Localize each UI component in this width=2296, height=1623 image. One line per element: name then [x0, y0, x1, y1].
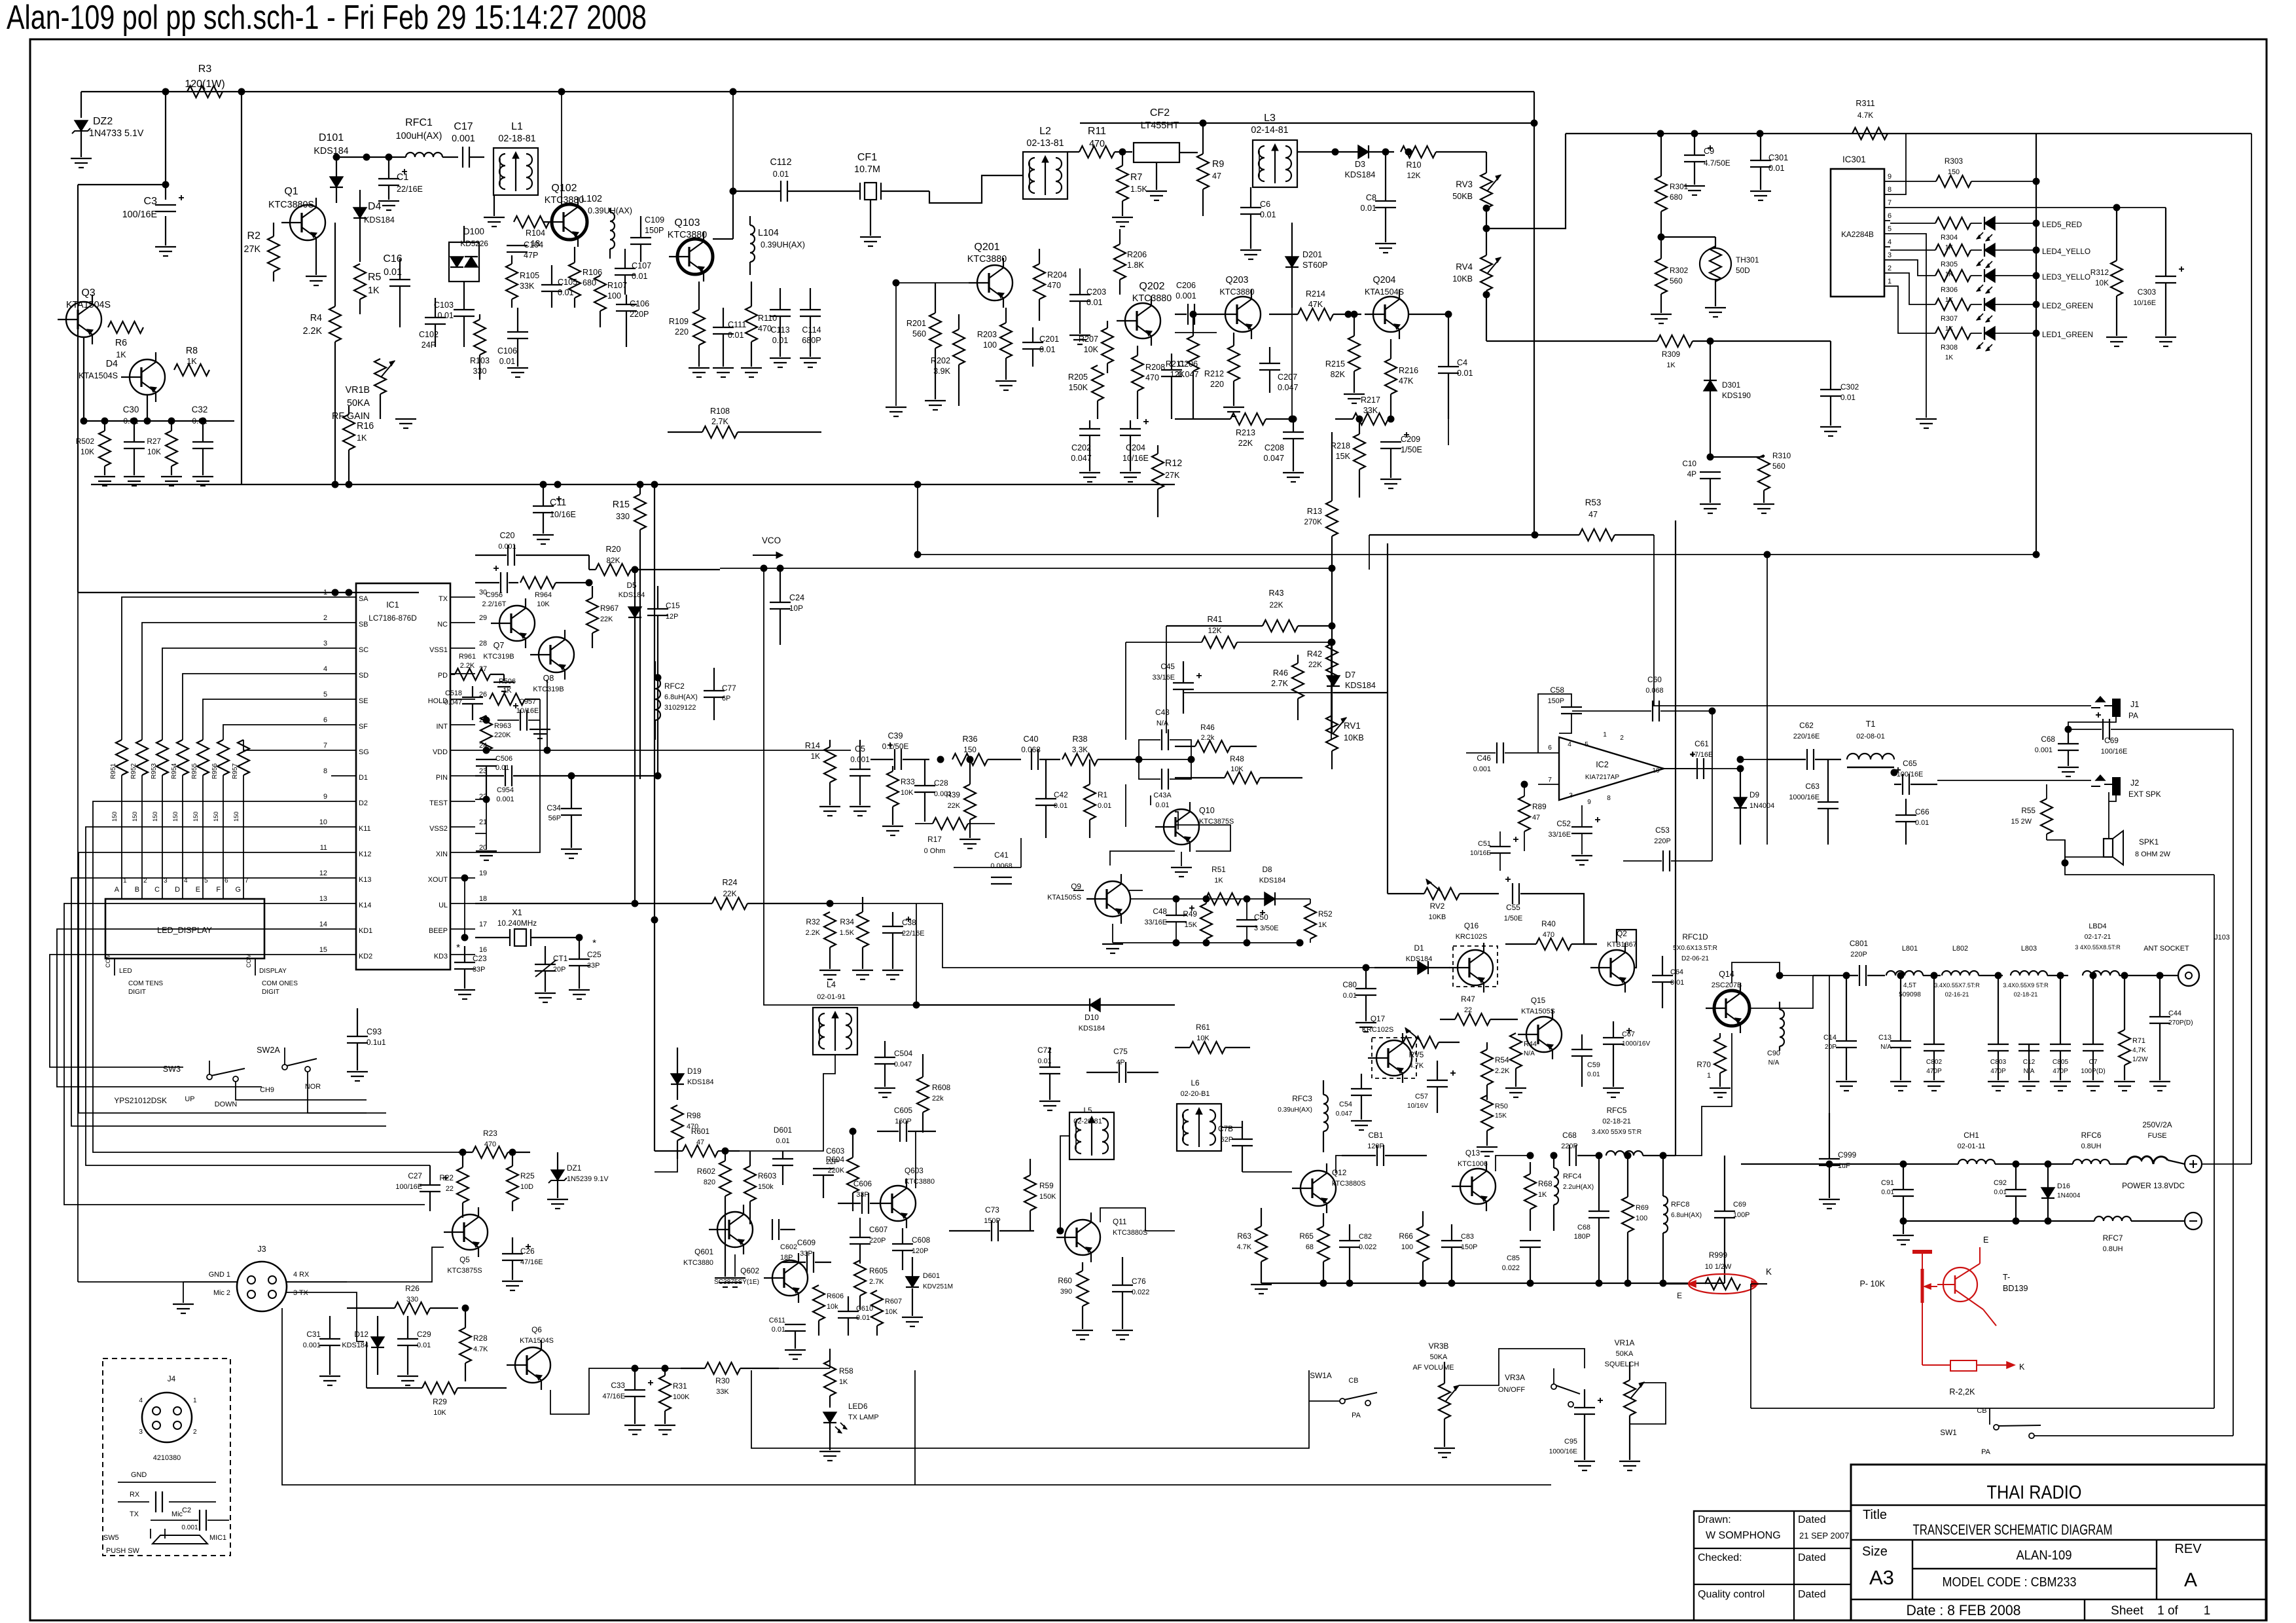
svg-text:02-01-11: 02-01-11 [1958, 1142, 1986, 1150]
LED LED1 [1984, 327, 1995, 340]
wire l3 top feed [1080, 122, 1534, 124]
svg-text:R33: R33 [901, 777, 915, 786]
svg-text:0.01: 0.01 [1457, 369, 1473, 378]
svg-text:R206: R206 [1127, 250, 1147, 259]
svg-text:27K: 27K [1165, 471, 1180, 480]
svg-text:C106: C106 [497, 346, 517, 356]
svg-text:2.2K: 2.2K [806, 929, 821, 937]
svg-text:220P: 220P [1654, 837, 1670, 845]
svg-text:R211: R211 [1166, 359, 1185, 369]
svg-text:10K: 10K [885, 1308, 898, 1316]
svg-text:INT: INT [436, 723, 448, 731]
resistor R50 [1481, 1095, 1493, 1131]
svg-text:KTC319B: KTC319B [533, 685, 564, 693]
svg-text:R303: R303 [1945, 156, 1964, 166]
svg-text:R218: R218 [1331, 441, 1350, 450]
resistor R28 [459, 1328, 471, 1363]
capacitor C62 [1806, 749, 1808, 770]
svg-text:R27: R27 [147, 437, 161, 446]
svg-text:C609: C609 [797, 1238, 816, 1247]
inductor LB04 [2083, 971, 2119, 976]
svg-text:1K: 1K [811, 752, 821, 761]
svg-text:C57: C57 [1415, 1093, 1428, 1101]
svg-text:C53: C53 [1655, 826, 1670, 835]
jack J1 [2113, 699, 2120, 716]
svg-text:100: 100 [1401, 1243, 1413, 1251]
capacitor C107 [615, 268, 636, 269]
svg-text:220K: 220K [494, 731, 511, 739]
ground DZ2 [71, 158, 92, 159]
resistor R964 [520, 577, 556, 589]
svg-text:R214: R214 [1306, 289, 1325, 299]
svg-text:R963: R963 [494, 722, 511, 730]
svg-text:C207: C207 [1278, 373, 1297, 382]
svg-text:6P: 6P [722, 695, 730, 702]
resistor R26 [395, 1302, 430, 1314]
svg-text:100uH(AX): 100uH(AX) [396, 131, 442, 141]
svg-text:22K: 22K [600, 615, 613, 623]
capacitor C54 [1351, 1088, 1372, 1089]
svg-text:1N4004: 1N4004 [2057, 1192, 2081, 1199]
svg-text:DOWN: DOWN [215, 1101, 237, 1108]
resistor R607 [871, 1290, 883, 1326]
wire q601 emitter [734, 1254, 736, 1277]
capacitor C803 [1988, 1044, 2009, 1045]
svg-text:GND 1: GND 1 [209, 1271, 230, 1279]
svg-text:C68: C68 [1577, 1224, 1590, 1231]
resistor R608 [917, 1077, 929, 1112]
svg-text:22/16E: 22/16E [397, 185, 423, 194]
wire q12 to c81 [1336, 1156, 1342, 1173]
svg-text:33P: 33P [473, 966, 485, 974]
svg-text:D201: D201 [1302, 250, 1322, 259]
diode D101 [330, 177, 343, 187]
svg-text:Q8: Q8 [543, 674, 554, 683]
pot VR1A squelch [1624, 1380, 1636, 1415]
wire vr3b wiper [1459, 1349, 1585, 1385]
resistor R4 [329, 306, 341, 342]
svg-text:3 3/50E: 3 3/50E [1254, 924, 1279, 932]
svg-text:7: 7 [1888, 199, 1892, 207]
svg-text:Q3: Q3 [81, 287, 95, 299]
wire Q3 net [84, 337, 234, 421]
svg-text:680P: 680P [802, 336, 821, 345]
svg-text:CH1: CH1 [1964, 1131, 1979, 1140]
wire vco col [1333, 692, 1388, 693]
transformer L2 [1023, 152, 1067, 199]
svg-text:K: K [1766, 1267, 1772, 1277]
wire D4 net [147, 395, 148, 421]
resistor R103 [474, 319, 486, 355]
svg-text:KTC3880S: KTC3880S [268, 200, 314, 210]
svg-text:R50: R50 [1495, 1103, 1508, 1110]
resistor R999 red circled [1705, 1278, 1740, 1290]
svg-text:R308: R308 [1941, 344, 1958, 352]
svg-text:220/16E: 220/16E [1793, 733, 1820, 740]
svg-text:J103: J103 [2214, 934, 2230, 941]
svg-text:150: 150 [963, 745, 977, 754]
svg-text:0.001: 0.001 [2035, 746, 2053, 754]
inductor RFC5 [1606, 1151, 1643, 1156]
svg-text:12K: 12K [1208, 626, 1222, 635]
svg-text:R301: R301 [1670, 182, 1688, 191]
svg-text:KTC3880: KTC3880 [683, 1259, 713, 1267]
svg-text:R1: R1 [1098, 790, 1107, 799]
svg-text:RFC6: RFC6 [2081, 1131, 2102, 1140]
svg-text:R306: R306 [1941, 286, 1958, 294]
wire sw3 drop [236, 1082, 367, 1100]
wire q6 out [550, 1368, 681, 1414]
svg-text:50KA: 50KA [1430, 1353, 1448, 1361]
svg-text:47K: 47K [1399, 376, 1414, 386]
svg-text:C30: C30 [123, 405, 139, 414]
svg-text:C90: C90 [1767, 1049, 1780, 1057]
capacitor C8 [1375, 200, 1396, 202]
svg-text:THAI RADIO: THAI RADIO [1987, 1482, 2082, 1503]
svg-text:KDS190: KDS190 [1722, 391, 1751, 400]
svg-text:47K: 47K [1308, 300, 1323, 309]
wire q14 top [1732, 962, 1780, 983]
svg-text:DIGIT: DIGIT [128, 989, 146, 996]
resistor R204 [1033, 264, 1045, 299]
svg-text:R961: R961 [459, 653, 476, 661]
svg-text:R605: R605 [869, 1266, 888, 1275]
resistor bank R951-R957 [116, 740, 128, 775]
svg-text:1N5239 9.1V: 1N5239 9.1V [567, 1175, 609, 1183]
svg-text:R608: R608 [932, 1083, 951, 1092]
svg-text:C83: C83 [1461, 1233, 1474, 1241]
svg-text:C44: C44 [2168, 1010, 2181, 1017]
svg-text:2.7K: 2.7K [869, 1278, 884, 1286]
svg-text:R108: R108 [710, 407, 730, 416]
svg-text:RFC4: RFC4 [1563, 1173, 1581, 1180]
svg-text:D3: D3 [1355, 160, 1365, 169]
LED LED6 TX lamp [823, 1412, 836, 1423]
resistor R307 [1935, 299, 1971, 310]
svg-text:R10: R10 [1406, 160, 1421, 170]
svg-text:KTA1504S: KTA1504S [66, 300, 111, 310]
svg-text:PD: PD [438, 672, 448, 680]
svg-text:1K: 1K [1214, 877, 1223, 884]
svg-text:28: 28 [479, 640, 487, 647]
resistor R104 [514, 216, 549, 228]
svg-text:47: 47 [1212, 172, 1221, 181]
svg-text:3: 3 [139, 1429, 143, 1436]
transistor D4 pnp [130, 359, 165, 395]
capacitor C77 [704, 690, 725, 691]
svg-text:Date : 8 FEB 2008: Date : 8 FEB 2008 [1907, 1602, 2021, 1618]
svg-text:B: B [135, 886, 139, 894]
svg-text:9: 9 [323, 793, 327, 801]
resistor R31 [659, 1376, 671, 1411]
capacitor C20 [507, 545, 509, 566]
svg-text:10K: 10K [1230, 765, 1244, 773]
wire pin7 row [1890, 207, 2117, 208]
wire q9 link [1128, 890, 1143, 891]
resistor R206 [1114, 244, 1126, 280]
svg-text:R24: R24 [722, 878, 737, 887]
svg-text:10/16E: 10/16E [550, 510, 576, 519]
svg-text:2: 2 [1620, 735, 1624, 742]
trimmer CT1 [535, 964, 556, 965]
transformer L3 [1253, 140, 1297, 187]
svg-text:02-16-21: 02-16-21 [1945, 991, 1969, 998]
svg-text:D8: D8 [1262, 865, 1272, 874]
capacitor C78 [1232, 1139, 1253, 1140]
svg-text:62P: 62P [1221, 1136, 1233, 1144]
diode D4a [353, 208, 367, 218]
pot VR3B af volume [1439, 1383, 1450, 1419]
jack J2 [2113, 778, 2120, 795]
resistor R302 [1655, 259, 1667, 294]
svg-text:C2: C2 [182, 1506, 191, 1514]
svg-text:680: 680 [583, 278, 596, 287]
svg-text:150: 150 [192, 812, 199, 822]
resistor R301 [1655, 176, 1667, 211]
svg-text:KDS184: KDS184 [1259, 877, 1286, 884]
svg-text:SW2A: SW2A [257, 1046, 280, 1055]
capacitor C38 [882, 926, 903, 927]
svg-text:31029122: 31029122 [664, 704, 696, 712]
svg-text:C17: C17 [454, 121, 473, 132]
svg-text:22k: 22k [932, 1095, 944, 1103]
IC IC301 KA2284B [1831, 169, 1884, 297]
svg-text:R34: R34 [840, 917, 854, 926]
resistor R305 [1935, 244, 1971, 256]
svg-text:0.01: 0.01 [1360, 204, 1376, 213]
resistor R1 [1084, 784, 1096, 820]
svg-text:47/16E: 47/16E [602, 1393, 625, 1400]
resistor R34 [857, 912, 869, 947]
svg-text:KTC3880: KTC3880 [668, 230, 707, 240]
svg-text:0.01: 0.01 [772, 1326, 785, 1334]
transistor Q6 [515, 1347, 550, 1383]
svg-text:5X0.6X13.5T:R: 5X0.6X13.5T:R [1673, 945, 1717, 952]
resistor R70 [1714, 1038, 1726, 1073]
ground C3 [155, 246, 176, 247]
svg-text:TRANSCEIVER SCHEMATIC DIAGRAM: TRANSCEIVER SCHEMATIC DIAGRAM [1913, 1522, 2113, 1538]
transistor Q201 [977, 265, 1013, 301]
svg-text:Q602: Q602 [740, 1266, 759, 1275]
wire mid right vertical [1767, 555, 1768, 759]
resistor R213 [1230, 413, 1266, 425]
svg-text:50KA: 50KA [347, 398, 370, 409]
svg-text:0.01: 0.01 [558, 288, 574, 297]
svg-text:120(1W): 120(1W) [185, 79, 224, 90]
svg-text:J2: J2 [2130, 778, 2139, 788]
svg-text:KTC3880S: KTC3880S [1113, 1229, 1147, 1237]
resistor R109 [693, 310, 705, 345]
svg-text:R14: R14 [805, 741, 820, 750]
wire pin8 up [1890, 134, 1906, 194]
svg-text:0.001: 0.001 [1473, 765, 1491, 773]
transistor Q603 [880, 1186, 916, 1221]
wire l5 out [1060, 1136, 1069, 1231]
wire pin5 gnd [1890, 234, 1926, 418]
svg-text:22K: 22K [948, 802, 961, 810]
svg-text:L6: L6 [1191, 1078, 1200, 1087]
capacitor C57 [1427, 1080, 1448, 1081]
svg-text:ANT SOCKET: ANT SOCKET [2144, 945, 2189, 953]
svg-text:560: 560 [1772, 462, 1785, 471]
svg-text:D19: D19 [687, 1067, 702, 1076]
svg-text:22: 22 [446, 1185, 454, 1193]
capacitor C205 [1161, 369, 1182, 371]
inductor RFC7 [2094, 1216, 2131, 1221]
svg-text:RV1: RV1 [1344, 721, 1361, 731]
svg-text:C506: C506 [495, 755, 512, 763]
capacitor C17 [462, 147, 463, 168]
svg-text:1K: 1K [1945, 354, 1954, 361]
svg-text:2.7K: 2.7K [711, 417, 729, 426]
svg-text:TX LAMP: TX LAMP [848, 1413, 879, 1421]
inductor L104 [750, 225, 755, 262]
svg-text:L803: L803 [2021, 945, 2037, 953]
svg-text:R955: R955 [191, 763, 198, 779]
svg-text:PA: PA [1981, 1448, 1990, 1456]
svg-text:C43: C43 [1155, 708, 1170, 717]
svg-text:1: 1 [193, 1397, 197, 1404]
wire bottom long 1 [282, 1308, 1551, 1485]
terminal plus [2185, 1156, 2202, 1173]
svg-text:C206: C206 [1176, 281, 1196, 290]
svg-text:R59: R59 [1039, 1181, 1054, 1190]
wire vco out right [720, 568, 1332, 569]
svg-text:100/16E: 100/16E [2101, 748, 2128, 756]
svg-text:1uF: 1uF [1838, 1162, 1850, 1170]
svg-text:0.39UH(AX): 0.39UH(AX) [761, 240, 805, 249]
svg-text:CF2: CF2 [1150, 107, 1170, 119]
svg-text:10KB: 10KB [1344, 733, 1364, 742]
svg-text:R68: R68 [1538, 1179, 1552, 1188]
wire pa to filter [1780, 975, 1858, 976]
wire rfc1 row [336, 156, 406, 158]
svg-text:CB1: CB1 [1369, 1131, 1384, 1140]
svg-text:L5: L5 [1083, 1106, 1092, 1115]
svg-text:02-17-21: 02-17-21 [2085, 934, 2111, 941]
svg-text:33K: 33K [520, 282, 535, 291]
svg-text:C201: C201 [1039, 335, 1059, 344]
wire sw2a drop [308, 1072, 386, 1113]
svg-text:C61: C61 [1695, 739, 1709, 748]
svg-text:COM: COM [245, 954, 252, 968]
svg-text:R9: R9 [1212, 159, 1224, 170]
svg-text:R207: R207 [1079, 335, 1098, 344]
svg-text:10: 10 [1652, 767, 1660, 775]
svg-text:C95: C95 [1564, 1438, 1577, 1446]
svg-text:47/16E: 47/16E [1691, 751, 1713, 759]
svg-text:Q204: Q204 [1373, 275, 1396, 285]
svg-text:C24: C24 [789, 593, 804, 602]
svg-text:10KB: 10KB [1452, 274, 1473, 283]
svg-text:4,7K: 4,7K [2132, 1047, 2146, 1054]
svg-text:0.01: 0.01 [384, 267, 402, 278]
capacitor C102 [425, 317, 446, 318]
svg-text:02-08-01: 02-08-01 [1856, 733, 1885, 740]
svg-text:270P(D): 270P(D) [2168, 1019, 2193, 1027]
svg-text:C77: C77 [722, 684, 736, 693]
svg-text:C51: C51 [1478, 840, 1491, 848]
svg-text:L2: L2 [1039, 126, 1051, 137]
svg-text:C45: C45 [1160, 662, 1175, 671]
svg-text:R5: R5 [368, 272, 382, 283]
resistor R308 [1935, 327, 1971, 339]
svg-text:KIA7217AP: KIA7217AP [1585, 774, 1619, 781]
capacitor C112 [780, 181, 781, 202]
svg-text:RFC1: RFC1 [405, 117, 433, 128]
svg-text:KTC3880: KTC3880 [1219, 287, 1254, 297]
svg-text:KDS184: KDS184 [619, 591, 645, 599]
svg-text:150P: 150P [1548, 697, 1564, 705]
capacitor C81 [1376, 1145, 1378, 1166]
svg-text:TX: TX [439, 595, 448, 603]
capacitor C39 [894, 749, 895, 770]
capacitor C603 [813, 1168, 834, 1169]
svg-text:0.001: 0.001 [498, 543, 516, 551]
svg-text:R60: R60 [1058, 1276, 1072, 1285]
svg-text:2SC207B: 2SC207B [1712, 981, 1742, 989]
svg-text:15K: 15K [1336, 452, 1351, 461]
wire led anode bus [2036, 134, 2037, 555]
resistor R43 [1263, 620, 1298, 632]
diode D3 [1358, 145, 1369, 158]
resistor R61 [1190, 1042, 1225, 1053]
svg-text:02-18-21: 02-18-21 [1602, 1118, 1631, 1125]
svg-text:Q7: Q7 [493, 641, 505, 650]
svg-text:LED3_YELLO: LED3_YELLO [2042, 272, 2090, 282]
svg-text:UP: UP [185, 1095, 194, 1103]
resistor R27 [166, 431, 177, 466]
inductor RFC8 [1663, 1196, 1668, 1233]
capacitor C27 [420, 1184, 440, 1186]
svg-text:10/16E: 10/16E [1470, 850, 1491, 857]
svg-text:150: 150 [1948, 168, 1960, 176]
svg-text:1/50E: 1/50E [1504, 915, 1522, 922]
svg-text:R954: R954 [171, 763, 178, 779]
svg-text:C64: C64 [1670, 968, 1683, 976]
diode D7 [1327, 676, 1340, 686]
capacitor C103 [454, 309, 475, 310]
svg-text:C114: C114 [802, 325, 821, 335]
svg-text:X1: X1 [512, 908, 522, 917]
capacitor C12 [2018, 1044, 2039, 1045]
svg-text:3 4X0.55X8.5T:R: 3 4X0.55X8.5T:R [2075, 944, 2121, 951]
svg-text:C603: C603 [826, 1146, 845, 1156]
svg-text:0.01: 0.01 [1086, 298, 1103, 307]
svg-text:250V/2A: 250V/2A [2142, 1120, 2172, 1129]
svg-text:R4: R4 [310, 313, 322, 323]
svg-text:R43: R43 [1268, 589, 1283, 598]
svg-text:R213: R213 [1236, 428, 1255, 437]
inductor L801 [1886, 971, 1923, 976]
svg-text:BD139: BD139 [2003, 1284, 2028, 1293]
svg-text:220P: 220P [1561, 1142, 1577, 1150]
svg-text:0.047: 0.047 [1278, 383, 1299, 392]
svg-text:R304: R304 [1941, 234, 1958, 242]
svg-text:G: G [236, 886, 241, 894]
svg-text:0.01: 0.01 [632, 272, 648, 281]
wire right vertical 1 [1654, 570, 2091, 706]
resistor R106 [569, 263, 581, 298]
svg-text:R606: R606 [827, 1292, 844, 1300]
svg-text:R29: R29 [433, 1397, 447, 1406]
svg-text:LED1_GREEN: LED1_GREEN [2042, 330, 2093, 339]
svg-text:KDS184: KDS184 [1345, 170, 1376, 179]
capacitor C60 [1652, 701, 1653, 721]
svg-text:R999: R999 [1709, 1250, 1727, 1260]
diode D9 [1734, 797, 1747, 808]
capacitor C43A [1161, 769, 1162, 790]
